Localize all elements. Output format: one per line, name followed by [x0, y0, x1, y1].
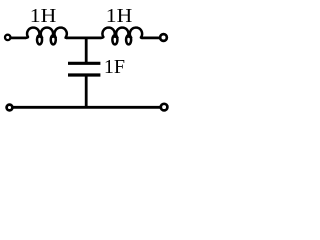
wire top-middle	[66, 37, 101, 40]
terminal bottom-right	[161, 104, 168, 111]
terminal bottom-left	[7, 105, 13, 111]
inductor L2 1H	[101, 28, 142, 45]
terminal top-right	[160, 34, 167, 41]
capacitor C1 top plate	[68, 62, 100, 65]
svg-text:1F: 1F	[104, 56, 125, 78]
node junction stub	[85, 38, 88, 63]
wire top-right	[142, 37, 160, 40]
bottom rail wire	[13, 106, 160, 109]
inductor L1 1H	[25, 28, 67, 45]
capacitor bottom lead	[85, 75, 88, 107]
svg-text:1H: 1H	[30, 5, 56, 27]
wire top-left	[11, 37, 26, 40]
capacitor C1 bottom plate	[68, 73, 100, 76]
svg-text:1H: 1H	[106, 5, 133, 27]
terminal top-left	[5, 35, 10, 40]
